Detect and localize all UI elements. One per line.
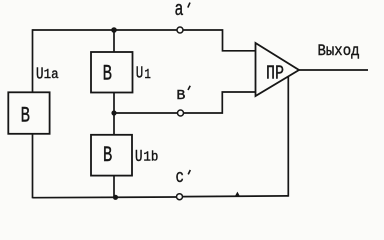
svg-text:U: U: [135, 147, 143, 166]
wire left vertical upper (top bus to U1a): [32, 29, 34, 92]
junction dot node b: [111, 110, 116, 115]
svg-text:c: c: [176, 168, 185, 188]
terminal c' circle: [177, 194, 183, 200]
block U1a (B) box: [8, 92, 49, 134]
svg-text:B: B: [103, 60, 112, 86]
terminal b' circle: [178, 110, 184, 116]
svg-text:ПР: ПР: [266, 62, 284, 84]
label U1b: [135, 147, 158, 166]
svg-text:1: 1: [144, 68, 151, 83]
svg-text:B: B: [103, 142, 112, 168]
svg-text:Выход: Выход: [318, 42, 360, 60]
wire output: [299, 69, 368, 71]
wire U1b to bottom bus: [113, 176, 115, 198]
block U1 (B) box: [91, 52, 133, 93]
svg-text:B: B: [176, 88, 185, 104]
junction mark on bottom bus: [235, 192, 240, 197]
wire strobe vertical (bottom bus to comparator): [287, 77, 289, 197]
block U1b (B) box: [91, 135, 132, 176]
wire terminal a' to comparator input 1: [183, 30, 256, 51]
svg-text:1a: 1a: [44, 68, 59, 83]
wire top bus (node a) left segment: [33, 29, 178, 31]
svg-text:1b: 1b: [143, 151, 158, 166]
label c': [176, 168, 191, 188]
comparator PR (triangle): [256, 43, 300, 96]
wire left vertical lower (U1a to bottom bus): [32, 134, 34, 199]
label U1: [136, 63, 151, 83]
svg-text:U: U: [136, 63, 144, 82]
junction dot top bus / U1: [111, 27, 117, 33]
svg-text:U: U: [36, 64, 44, 83]
terminal a' circle: [177, 27, 183, 33]
wire bottom bus (node c) left segment: [33, 196, 177, 199]
label B': [176, 86, 190, 105]
label U1a: [36, 64, 59, 83]
svg-text:a: a: [175, 0, 184, 22]
wire bottom bus right segment: [183, 195, 289, 198]
wire top bus to U1: [113, 30, 115, 52]
wire node b to terminal b': [114, 112, 178, 114]
label a': [175, 0, 191, 22]
wire terminal b' to comparator input 2: [184, 92, 256, 113]
svg-text:B: B: [21, 102, 30, 128]
wire U1 to U1b vertical: [113, 93, 115, 135]
junction dot bottom bus / U1b: [113, 195, 118, 200]
